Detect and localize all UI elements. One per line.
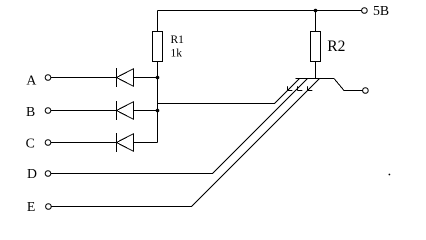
wire collector to output	[334, 79, 363, 91]
diode VD3 (input C)	[117, 133, 134, 152]
svg-text:5B: 5B	[373, 3, 389, 18]
stray ink dot	[389, 174, 391, 176]
label R1 value 1k	[171, 34, 185, 59]
wire R2 bottom lead to base	[315, 62, 317, 79]
node junction dot A row	[156, 76, 160, 80]
wire diode B anode to bus	[134, 110, 158, 112]
svg-text:D: D	[27, 166, 37, 181]
node junction dot at R2 top	[314, 9, 318, 13]
transistor VT1 emitter arrow 1	[288, 86, 293, 90]
transistor VT1 emitter arrow 3	[308, 86, 313, 90]
label 5B	[373, 3, 389, 18]
input terminal C	[26, 135, 51, 150]
svg-text:1k: 1k	[171, 48, 183, 60]
diode VD1 (input A)	[117, 68, 134, 87]
wire input E to emitter 3	[51, 79, 319, 207]
svg-text:A: A	[26, 72, 36, 87]
wire input B	[51, 110, 117, 112]
wire input A	[51, 77, 117, 79]
transistor VT1 multi-emitter base bar	[296, 78, 335, 80]
transistor VT1 emitter arrow 2	[298, 86, 303, 90]
svg-text:R2: R2	[327, 38, 345, 55]
svg-text:C: C	[26, 135, 35, 150]
wire common cathode bus (node K)	[157, 62, 159, 143]
wire diode C anode to bus	[134, 142, 158, 144]
wire R1 top lead	[157, 11, 159, 32]
wire top supply rail	[158, 10, 362, 12]
wire input D to emitter 2	[51, 79, 308, 174]
input terminal B	[26, 104, 51, 119]
label R2	[327, 38, 345, 55]
input terminal A	[26, 72, 50, 87]
wire input C	[51, 142, 117, 144]
svg-text:B: B	[26, 104, 35, 119]
power terminal 5B	[362, 8, 368, 14]
node junction dot B row	[156, 109, 160, 113]
input terminal E	[27, 199, 51, 214]
resistor R1	[153, 32, 163, 62]
wire diode A anode to bus	[134, 77, 158, 79]
wire R2 top lead	[315, 11, 317, 32]
svg-text:E: E	[27, 199, 35, 214]
diode VD2 (input B)	[117, 101, 134, 120]
output terminal	[363, 88, 369, 94]
svg-text:R1: R1	[171, 34, 185, 46]
input terminal D	[27, 166, 51, 181]
resistor R2	[311, 32, 321, 62]
wire common node to emitter 1	[158, 79, 300, 104]
